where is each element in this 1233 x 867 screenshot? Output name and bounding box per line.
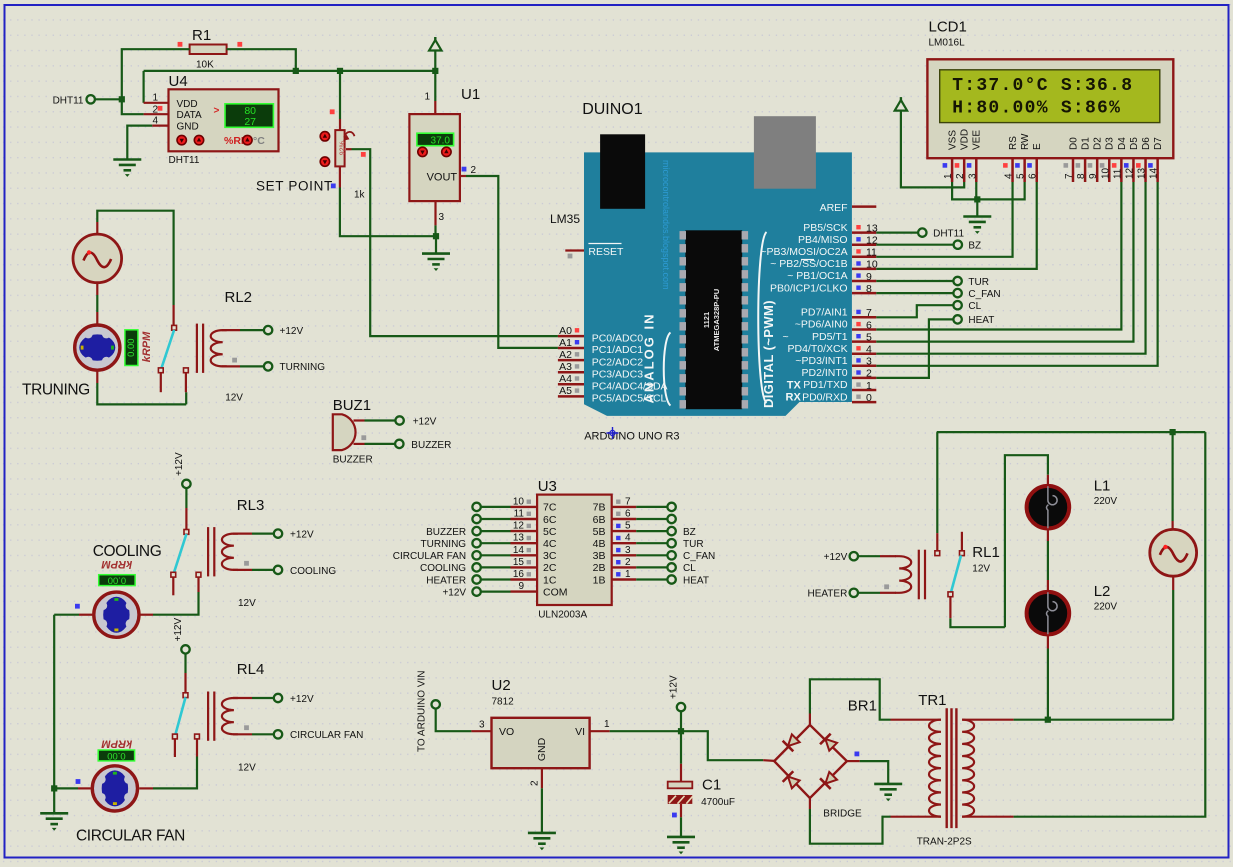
terminal CIRCULAR FAN <box>274 730 282 738</box>
svg-text:GND: GND <box>177 122 199 133</box>
svg-text:D1: D1 <box>1081 137 1092 150</box>
svg-text:CIRCULAR FAN: CIRCULAR FAN <box>393 551 466 562</box>
wire power to LCD pin2 VDD <box>901 110 964 188</box>
ground left rail <box>40 813 68 824</box>
blue marker C1 <box>672 813 677 818</box>
U4 button down <box>177 135 186 144</box>
driver U3 ULN2003A body <box>537 495 612 605</box>
wire RL3 common to motor <box>153 592 199 615</box>
ground C1 <box>667 837 695 848</box>
svg-text:3: 3 <box>479 720 485 731</box>
svg-text:4: 4 <box>625 533 631 544</box>
svg-text:kRPM: kRPM <box>101 558 132 570</box>
svg-text:92%: 92% <box>339 141 346 155</box>
svg-text:14: 14 <box>513 545 525 556</box>
svg-text:D7: D7 <box>1153 137 1164 150</box>
ground LCD <box>963 217 991 228</box>
U4 button up <box>194 135 203 144</box>
wire +12V terminal to junction <box>680 711 682 731</box>
wire RL2 coil to +12V terminal <box>222 329 240 331</box>
gray marker RL3 <box>244 561 249 566</box>
svg-text:6: 6 <box>625 509 631 520</box>
bridge BR1 outline <box>774 725 847 798</box>
blue marker bridge <box>855 752 860 757</box>
svg-text:H:80.00% S:86%: H:80.00% S:86% <box>952 99 1121 119</box>
svg-text:DHT11: DHT11 <box>53 95 84 106</box>
svg-text:A0: A0 <box>559 325 572 337</box>
svg-text:TX: TX <box>787 379 802 391</box>
svg-text:BR1: BR1 <box>848 698 877 715</box>
svg-text:A2: A2 <box>559 349 572 361</box>
wire R1 left to DATA node <box>122 49 190 114</box>
svg-text:A3: A3 <box>559 361 572 373</box>
svg-text:D5: D5 <box>1129 137 1140 150</box>
svg-text:BUZZER: BUZZER <box>411 440 451 451</box>
svg-text:4C: 4C <box>543 538 557 550</box>
svg-text:D3: D3 <box>1105 137 1116 150</box>
sensor U4 DHT11 body <box>169 89 279 151</box>
svg-text:12V: 12V <box>972 564 990 575</box>
terminal +12V C1 <box>677 703 685 711</box>
svg-text:0.00: 0.00 <box>126 338 137 357</box>
U3 pin 3 3B <box>612 554 637 556</box>
svg-text:DUINO1: DUINO1 <box>582 101 643 118</box>
svg-text:U3: U3 <box>538 478 557 495</box>
wire LCD D7 to pin3 <box>876 182 1157 366</box>
terminal +12V fan switch <box>181 645 189 653</box>
Arduino pin 4 PD4/T0/XCK <box>852 352 876 355</box>
Arduino analog bracket <box>664 333 671 406</box>
svg-text:2: 2 <box>625 557 631 568</box>
svg-text:4: 4 <box>1004 173 1015 179</box>
svg-text:+12V: +12V <box>174 452 185 476</box>
svg-text:PC1/ADC1: PC1/ADC1 <box>592 344 644 356</box>
wire L1 to L2 <box>1047 529 1049 541</box>
svg-text:12V: 12V <box>238 598 256 609</box>
U3 pin 16 1C <box>511 578 538 580</box>
terminal +12V RL2 <box>264 326 272 334</box>
svg-text:3: 3 <box>439 212 445 223</box>
U3 pin 11 6C <box>511 518 538 520</box>
svg-text:CL: CL <box>683 563 696 574</box>
svg-text:PC0/ADC0: PC0/ADC0 <box>592 332 644 344</box>
terminal DHT11 (input) <box>87 95 95 103</box>
svg-text:2: 2 <box>471 165 477 176</box>
left ground rail <box>53 615 55 814</box>
blue marker U1 pin2 <box>462 167 467 172</box>
svg-text:9: 9 <box>518 581 524 592</box>
wire L2 bottom to junction <box>1047 635 1049 649</box>
svg-text:BZ: BZ <box>683 527 696 538</box>
regulator U2 7812 body <box>492 718 590 768</box>
wire terminal to RL4 switch <box>184 653 186 673</box>
U3 pin 5 5B <box>612 530 637 532</box>
svg-text:PC2/ADC2: PC2/ADC2 <box>592 356 644 368</box>
svg-text:37.0: 37.0 <box>431 136 451 147</box>
motor CIRCULAR FAN <box>92 766 137 811</box>
svg-text:HEAT: HEAT <box>968 315 994 326</box>
U3 pin 2 2B <box>612 566 637 568</box>
svg-text:RL4: RL4 <box>237 661 265 678</box>
svg-text:1: 1 <box>604 719 610 730</box>
junction rail/pot <box>337 68 343 74</box>
svg-text:1: 1 <box>943 173 954 179</box>
wire pin7 to CL terminal <box>876 305 953 317</box>
Arduino pin 2 PD2/INT0 <box>852 377 876 380</box>
svg-text:6: 6 <box>866 319 872 331</box>
svg-text:1k: 1k <box>354 190 366 201</box>
svg-text:7: 7 <box>866 307 872 319</box>
svg-text:0.00: 0.00 <box>107 750 126 761</box>
svg-text:°C: °C <box>253 135 265 147</box>
red marker R1 right <box>237 42 242 47</box>
svg-text:BZ: BZ <box>968 241 981 252</box>
svg-text:+12V: +12V <box>824 552 848 563</box>
junction C1 top <box>678 728 684 734</box>
lamp L2 <box>1027 592 1070 635</box>
svg-text:U1: U1 <box>461 86 480 103</box>
wire LCD D4 to pin6 <box>876 182 1121 330</box>
wire fan motor left to rail <box>78 787 91 789</box>
wire LCD D5 to pin5 <box>876 182 1133 342</box>
svg-text:BUZZER: BUZZER <box>426 527 466 538</box>
svg-text:~PD6/AIN0: ~PD6/AIN0 <box>795 319 848 331</box>
wire source bottom to secondary top <box>1172 576 1174 590</box>
svg-text:1: 1 <box>625 569 631 580</box>
blue marker cooling motor <box>75 604 80 609</box>
terminal COOLING <box>274 566 282 574</box>
svg-text:C1: C1 <box>702 777 721 794</box>
Arduino pin 6 ~PD6/AIN0 <box>852 328 876 331</box>
svg-text:~PD3/INT1: ~PD3/INT1 <box>795 355 847 367</box>
svg-text:TURNING: TURNING <box>421 539 467 550</box>
svg-text:220V: 220V <box>1094 602 1118 613</box>
svg-text:D0: D0 <box>1068 137 1079 150</box>
Arduino pin A0 PC0/ADC0 <box>558 335 584 338</box>
svg-text:RESET: RESET <box>588 246 624 258</box>
svg-text:CL: CL <box>968 301 981 312</box>
pot wiper arrow <box>344 132 354 138</box>
+V rail wire y=71 <box>144 70 436 72</box>
svg-text:VI: VI <box>575 726 585 738</box>
svg-text:~ PD5/T1: ~ PD5/T1 <box>783 331 848 343</box>
svg-text:RS: RS <box>1008 136 1019 150</box>
svg-text:PD7/AIN1: PD7/AIN1 <box>801 307 848 319</box>
pot wiper wire to A0 <box>346 148 352 150</box>
power arrow U1 <box>434 37 436 42</box>
gray marker RL2 <box>232 358 237 363</box>
svg-text:RX: RX <box>786 392 802 404</box>
Arduino ATMEGA chip <box>685 230 742 409</box>
relay RL1 switch <box>935 551 940 556</box>
junction rail / fan wire <box>51 785 57 791</box>
svg-text:TUR: TUR <box>683 539 704 550</box>
svg-text:4: 4 <box>866 344 872 356</box>
overline on SS pin10 <box>801 259 814 261</box>
junction U1 gnd <box>433 233 439 239</box>
terminal BUZZER <box>395 440 403 448</box>
Arduino pin 1 PD1/TXD <box>852 389 876 392</box>
svg-text:5: 5 <box>1016 173 1027 179</box>
svg-text:1: 1 <box>866 380 872 392</box>
wire source top loop to switch <box>96 222 98 235</box>
svg-text:BUZ1: BUZ1 <box>333 397 371 414</box>
svg-text:E: E <box>1032 143 1043 150</box>
junction rail/source <box>1170 429 1176 435</box>
svg-text:CIRCULAR FAN: CIRCULAR FAN <box>290 730 363 741</box>
U3 pin 7 7B <box>612 506 637 508</box>
wire bridge right to ground <box>847 760 860 762</box>
svg-text:HEATER: HEATER <box>807 589 847 600</box>
svg-text:+12V: +12V <box>173 618 184 642</box>
svg-text:9: 9 <box>866 271 872 283</box>
wire LCD E to pin10 <box>876 182 1036 269</box>
svg-text:PD2/INT0: PD2/INT0 <box>801 367 847 379</box>
LCD1 body <box>927 59 1173 158</box>
svg-text:+12V: +12V <box>290 694 314 705</box>
svg-text:COOLING: COOLING <box>93 543 162 560</box>
Arduino pin 5 ~ PD5/T1 <box>852 340 876 343</box>
U3 pin 15 2C <box>511 566 538 568</box>
svg-text:~PB3/MOSI/OC2A: ~PB3/MOSI/OC2A <box>760 246 847 258</box>
sensor U1 LM35 body <box>409 114 460 201</box>
junction DHT11/DATA <box>119 96 125 102</box>
wire bridge bottom loop to TR1 primary bottom <box>809 798 811 809</box>
svg-text:ATMEGA328P-PU: ATMEGA328P-PU <box>712 289 721 351</box>
red marker wiper <box>361 152 366 157</box>
svg-text:COOLING: COOLING <box>290 566 336 577</box>
lamp L1 wires <box>1005 455 1048 627</box>
wire rail to pot top <box>339 71 341 119</box>
svg-text:L1: L1 <box>1094 478 1111 495</box>
svg-text:220V: 220V <box>1094 496 1118 507</box>
svg-text:DHT11: DHT11 <box>169 155 200 166</box>
svg-text:TUR: TUR <box>968 277 989 288</box>
Arduino pin A3 PC3/ADC3 <box>558 371 584 374</box>
junction secondary/lamps <box>1045 717 1051 723</box>
svg-text:+12V: +12V <box>413 417 437 428</box>
Arduino pin 0 PD0/RXD <box>852 401 876 404</box>
svg-text:8: 8 <box>1076 173 1087 179</box>
kRPM display TRUNING <box>125 330 138 366</box>
bridge diode D2 (top-right) <box>820 734 838 752</box>
svg-text:1: 1 <box>152 93 158 104</box>
wire U2 pin1 to C1/bridge <box>610 731 764 760</box>
Arduino RESET pin stub <box>565 249 584 251</box>
terminal HEATER <box>850 589 858 597</box>
relay RL4 coil <box>208 692 238 741</box>
wire DHT11 terminal to node <box>95 98 122 100</box>
terminal BZ <box>954 241 962 249</box>
svg-text:LCD1: LCD1 <box>929 19 967 36</box>
ground U1 <box>422 254 450 265</box>
terminal CL <box>953 301 961 309</box>
terminal +12V RL4 <box>274 694 282 702</box>
svg-text:27: 27 <box>244 116 256 128</box>
svg-text:1121: 1121 <box>702 312 711 328</box>
capacitor C1 4700uF <box>668 782 693 789</box>
bridge diode D4 (bottom-right) <box>820 771 838 789</box>
svg-text:3: 3 <box>967 173 978 179</box>
relay RL4 switch <box>183 693 188 698</box>
svg-text:3B: 3B <box>593 550 606 562</box>
wire C1 bottom to ground <box>680 804 682 817</box>
transformer TR1 core <box>946 708 948 828</box>
gray marker RESET <box>568 254 573 259</box>
svg-text:0: 0 <box>866 392 872 404</box>
red marker pot top <box>330 109 335 114</box>
svg-text:PD4/T0/XCK: PD4/T0/XCK <box>787 343 847 355</box>
svg-text:microcontrolandos.blogspot.com: microcontrolandos.blogspot.com <box>661 160 671 290</box>
Arduino pin 3 ~PD3/INT1 <box>852 365 876 368</box>
wire pin12 to BZ terminal <box>876 244 953 246</box>
Arduino pin 7 PD7/AIN1 <box>852 316 876 319</box>
svg-text:VOUT: VOUT <box>427 172 458 184</box>
Arduino pin A5 PC5/ADC5/SCL <box>558 395 584 398</box>
svg-text:2B: 2B <box>593 562 606 574</box>
wire U4 GND to ground <box>127 126 152 160</box>
kRPM display fan <box>98 750 134 761</box>
U3 pin 6 6B <box>612 518 637 520</box>
svg-text:TO ARDUINO VIN: TO ARDUINO VIN <box>417 671 428 753</box>
svg-text:L2: L2 <box>1094 583 1111 600</box>
svg-text:6: 6 <box>1028 173 1039 179</box>
blue marker pot bottom <box>331 184 336 189</box>
motor TRUNING <box>75 325 120 370</box>
bridge diode D3 (bottom-left) <box>783 771 801 789</box>
svg-text:2: 2 <box>152 104 158 115</box>
relay RL3 coil <box>208 527 238 576</box>
Arduino pin A4 PC4/ADC4/SDA <box>558 383 584 386</box>
gray marker RL4 <box>244 725 249 730</box>
wire R1 right to +V rail <box>227 49 296 71</box>
wire junction down <box>435 236 437 253</box>
terminal TO ARDUINO VIN <box>432 700 440 708</box>
svg-text:PC4/ADC4/SDA: PC4/ADC4/SDA <box>592 381 668 393</box>
svg-text:D2: D2 <box>1093 137 1104 150</box>
svg-text:10: 10 <box>866 259 878 271</box>
ground bridge <box>874 784 902 795</box>
wire RL2 coil to TURNING terminal <box>222 365 240 367</box>
transformer TR1 primary winding <box>891 719 942 721</box>
svg-text:4700uF: 4700uF <box>701 797 735 808</box>
svg-text:A1: A1 <box>559 337 572 349</box>
svg-text:+12V: +12V <box>669 675 680 699</box>
svg-text:U4: U4 <box>169 73 188 90</box>
resistor R1 <box>190 45 227 55</box>
svg-text:SET POINT: SET POINT <box>256 178 333 193</box>
blue marker fan motor <box>76 779 81 784</box>
svg-text:>: > <box>214 106 220 117</box>
motor COOLING <box>94 592 139 637</box>
svg-text:AREF: AREF <box>820 202 848 214</box>
svg-text:CIRCULAR FAN: CIRCULAR FAN <box>76 828 185 845</box>
svg-text:1B: 1B <box>593 574 606 586</box>
pot button down <box>320 157 329 166</box>
wire TR1 secondary top to lamps/source <box>1014 719 1174 721</box>
svg-text:COOLING: COOLING <box>420 563 466 574</box>
svg-text:LM016L: LM016L <box>929 38 966 49</box>
U4 pin 1 VDD <box>144 102 169 104</box>
ground U4 <box>113 160 141 171</box>
svg-text:GND: GND <box>536 737 548 761</box>
terminal +12V cooling switch <box>182 480 190 488</box>
svg-text:4: 4 <box>152 116 158 127</box>
svg-text:12: 12 <box>513 521 525 532</box>
svg-text:VDD: VDD <box>177 99 198 110</box>
AC source V1 (mains) <box>1150 529 1197 576</box>
U3 pin 1 1B <box>612 578 637 580</box>
svg-text:PC5/ADC5/SCL: PC5/ADC5/SCL <box>592 393 667 405</box>
junction R1/rail <box>293 68 299 74</box>
svg-text:A5: A5 <box>559 385 572 397</box>
svg-text:11: 11 <box>514 509 525 520</box>
transformer TR1 secondary winding <box>962 720 974 817</box>
svg-text:TRUNING: TRUNING <box>22 382 90 399</box>
svg-text:A4: A4 <box>559 373 572 385</box>
svg-text:5: 5 <box>866 331 872 343</box>
U4 button 2 <box>243 135 252 144</box>
svg-text:PD1/TXD: PD1/TXD <box>803 379 848 391</box>
relay RL1 coil <box>858 555 880 557</box>
svg-text:5: 5 <box>625 521 631 532</box>
Arduino pin 11 ~PB3/MOSI/OC2A <box>852 256 876 259</box>
Arduino power connector <box>754 116 816 189</box>
Arduino pin 9 ~ PB1/OC1A <box>852 280 876 283</box>
wire pin8 to C_FAN terminal <box>876 292 953 294</box>
wire top rail <box>937 431 1206 433</box>
red marker U4 pin2 <box>158 106 163 111</box>
terminal TURNING <box>264 362 272 370</box>
svg-text:4B: 4B <box>593 538 606 550</box>
terminal DHT11 (out) <box>918 228 926 236</box>
U3 pin 4 4B <box>612 542 637 544</box>
Arduino pin 10 ~ PB2/SS/OC1B <box>852 268 876 271</box>
terminal +12V RL3 <box>274 529 282 537</box>
wire U2 pin2 to ground <box>541 788 543 833</box>
relay RL2 coil <box>197 324 227 373</box>
wire pin9 to TUR terminal <box>876 280 953 282</box>
bridge diode D1 (top-left) <box>783 733 801 751</box>
gray marker BUZ1 <box>361 435 366 440</box>
U3 pin 10 7C <box>511 506 538 508</box>
svg-text:5B: 5B <box>593 526 606 538</box>
power arrow LCD VDD <box>900 97 902 102</box>
wire VIN terminal to U2 pin3 <box>436 709 472 732</box>
U4 display <box>225 104 273 128</box>
svg-text:T:37.0°C S:36.8: T:37.0°C S:36.8 <box>952 76 1133 96</box>
svg-text:+12V: +12V <box>290 530 314 541</box>
svg-text:VSS: VSS <box>948 130 959 150</box>
terminal +12V BUZ1 <box>395 416 403 424</box>
gray marker RL1 <box>884 584 889 589</box>
svg-text:+12V: +12V <box>442 587 466 598</box>
svg-text:VDD: VDD <box>960 129 971 150</box>
wire source bottom to motor top <box>96 282 98 295</box>
svg-text:PD0/RXD: PD0/RXD <box>802 391 848 403</box>
terminal C_FAN <box>953 289 961 297</box>
wire junction down to C1 <box>680 731 682 764</box>
wire bridge top to TR1 primary <box>809 714 811 725</box>
svg-text:12: 12 <box>866 235 878 247</box>
U2 pin 1 stub <box>590 730 610 732</box>
svg-text:3C: 3C <box>543 550 557 562</box>
wire terminal to RL3 switch <box>185 488 187 508</box>
wire pin13 to DHT11 terminal <box>876 232 918 234</box>
svg-text:kRPM: kRPM <box>101 738 132 750</box>
U1 button down <box>418 147 427 156</box>
svg-text:0.00: 0.00 <box>108 575 127 586</box>
